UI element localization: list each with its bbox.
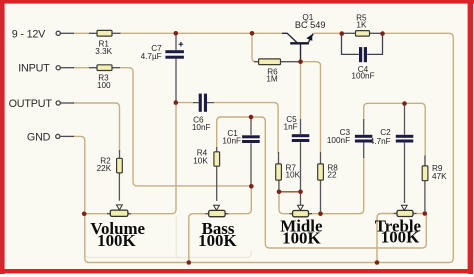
potentiometer Midle 100K xyxy=(280,205,323,247)
wire: Bass pot left terminal down to bottom rail xyxy=(189,214,209,263)
wire: faint potentiometer outline bottom under Volume and Bass xyxy=(85,250,251,258)
svg-text:10K: 10K xyxy=(286,171,301,180)
capacitor C3 100nF xyxy=(327,119,373,158)
wire: faint outline vertical right of Volume label xyxy=(176,217,180,258)
resistor R5 1K xyxy=(342,14,383,36)
svg-text:10nF: 10nF xyxy=(192,123,211,132)
wire: 9-12V terminal to R1 xyxy=(73,32,90,34)
node C5 bottom / Middle wiper xyxy=(298,190,303,195)
svg-text:10nF: 10nF xyxy=(222,137,241,146)
svg-text:1K: 1K xyxy=(356,21,367,30)
svg-text:22K: 22K xyxy=(97,164,112,173)
svg-text:OUTPUT: OUTPUT xyxy=(9,98,53,110)
svg-text:100K: 100K xyxy=(97,231,135,250)
wire: base node down toward C5 xyxy=(300,62,302,119)
svg-text:GND: GND xyxy=(27,131,51,143)
svg-text:100nF: 100nF xyxy=(351,72,374,81)
node Treble right / R9 xyxy=(423,211,428,216)
svg-text:100: 100 xyxy=(97,81,111,90)
terminal 9-12V xyxy=(12,28,74,40)
node C7 bottom xyxy=(174,100,179,105)
wire: base node right then down to R8 top xyxy=(301,62,321,153)
svg-text:47K: 47K xyxy=(432,172,447,181)
node R5 right xyxy=(380,31,385,36)
svg-text:9 - 12V: 9 - 12V xyxy=(12,28,46,40)
capacitor C1 10nF xyxy=(222,119,259,185)
wire: routed loop from C1 top node around Midle label up to Treble right node xyxy=(251,117,426,248)
svg-text:22: 22 xyxy=(327,171,337,180)
resistor R8 22 xyxy=(318,152,339,211)
wire: Volume left terminal to GND drop node xyxy=(85,213,111,215)
wire: C1 top node left then down to R4 top xyxy=(217,117,251,148)
transistor Q1 BC549 xyxy=(282,13,326,60)
svg-text:10K: 10K xyxy=(193,156,208,165)
resistor R7 10K xyxy=(276,152,301,190)
wire: C3 top up, corner, right along treble top, corner down to R9 top xyxy=(364,103,426,156)
capacitor C4 100nF parallel loop under R5 xyxy=(342,34,383,81)
svg-text:3.3K: 3.3K xyxy=(95,47,112,56)
terminal GND xyxy=(27,131,74,143)
svg-text:INPUT: INPUT xyxy=(18,63,50,75)
node Treble left on rail xyxy=(375,260,380,265)
wire: R9 top lead run xyxy=(424,156,426,166)
capacitor C7 4.7uF electrolytic xyxy=(141,36,184,101)
terminal OUTPUT xyxy=(9,98,74,110)
potentiometer Treble 100K xyxy=(375,205,422,246)
wire: Treble pot left terminal down to bottom rail xyxy=(377,214,397,263)
svg-text:BC 549: BC 549 xyxy=(295,20,326,30)
node C1 bottom xyxy=(249,184,254,189)
node rail-C7 xyxy=(174,31,179,36)
node C1 top xyxy=(249,115,254,120)
node R5 left xyxy=(340,31,345,36)
wire: R3 right, corner down, long run right to C1 bottom node xyxy=(119,68,251,186)
terminal INPUT xyxy=(18,63,74,75)
resistor R2 22K xyxy=(97,150,123,201)
svg-text:1nF: 1nF xyxy=(284,122,298,131)
capacitor C5 1nF xyxy=(284,115,310,189)
resistor R3 100 xyxy=(89,65,120,90)
wire: INPUT terminal to R3 xyxy=(73,67,90,69)
potentiometer Volume 100K xyxy=(90,205,145,250)
svg-text:C2: C2 xyxy=(380,128,391,137)
wire: GND net - from GND terminal down the left, along bottom rail, up right side to R5 right node xyxy=(73,33,453,262)
wire: rail node down and right to R6 left xyxy=(252,33,259,61)
wire: R7 bottom node to C5 bottom node xyxy=(279,191,301,193)
node Bass left on rail xyxy=(187,260,192,265)
wire: C6 right, corner down to R7 top xyxy=(214,103,279,153)
potentiometer Bass 100K xyxy=(198,205,236,250)
svg-text:100K: 100K xyxy=(282,229,320,248)
wire: node C7-bottom to C6 left xyxy=(176,102,193,104)
wire: Bass pot right terminal up to C1 bottom node xyxy=(225,187,251,214)
node base Q1 xyxy=(298,59,303,64)
wire: rail from emitter to R5 left node xyxy=(314,32,343,34)
svg-text:4.7µF: 4.7µF xyxy=(141,52,162,61)
svg-text:1M: 1M xyxy=(266,75,278,84)
node Volume left / GND xyxy=(82,212,87,217)
wire: Middle pot right through R8 node, corner up to C3 bottom xyxy=(308,157,363,214)
wire: Treble pot right terminal to R9 node xyxy=(413,213,425,215)
node R7 bottom xyxy=(277,190,282,195)
resistor R4 10K xyxy=(193,147,219,201)
wire: OUTPUT terminal right then down to R2 top xyxy=(73,103,120,151)
svg-text:100K: 100K xyxy=(381,227,419,246)
node Middle right / R8 xyxy=(318,211,323,216)
capacitor C6 10nF xyxy=(192,94,214,132)
resistor R1 3.3K xyxy=(89,30,121,56)
capacitor C2 4.7nF xyxy=(370,106,414,204)
svg-text:100K: 100K xyxy=(198,231,236,250)
svg-text:4.7nF: 4.7nF xyxy=(370,137,391,146)
wire: node C7-bottom down then left into Volume right terminal xyxy=(128,104,177,214)
svg-text:100nF: 100nF xyxy=(327,136,350,145)
resistor R6 1M xyxy=(254,59,299,84)
node C2 top xyxy=(402,101,407,106)
node rail-R6drop xyxy=(250,31,255,36)
wire: V+ rail from R1 to transistor collector xyxy=(120,32,283,34)
resistor R9 47K xyxy=(422,156,447,212)
wire: Middle pot wiper lead from C5 bottom node down to arrow xyxy=(300,192,302,206)
wire: R7 bottom node down then right to Middle pot left xyxy=(279,192,293,214)
